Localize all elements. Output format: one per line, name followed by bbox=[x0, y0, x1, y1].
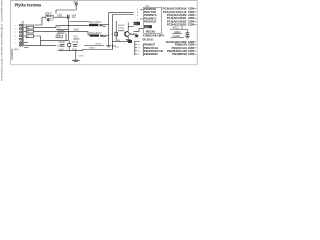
bus vertical at IC lower bbox=[142, 43, 144, 56]
net label row PB4 bbox=[167, 19, 196, 23]
power flag VCC bbox=[73, 1, 78, 5]
IC1 value labels bbox=[143, 30, 165, 41]
wire crystal ground rail bbox=[58, 49, 83, 51]
wire RXD to IC1 bbox=[109, 13, 134, 46]
node AGND label bbox=[171, 35, 185, 38]
wire under IC1 bbox=[134, 41, 140, 43]
svg-text:RES: RES bbox=[144, 27, 149, 29]
wire lower bus left bbox=[134, 42, 136, 55]
capacitor C2 value label bbox=[57, 13, 63, 18]
ground under opto bus bbox=[106, 46, 111, 47]
IC1 left pin wires bbox=[140, 9, 143, 19]
capacitor C8 right bbox=[186, 32, 190, 36]
IC1 ATMEGA8 box bbox=[143, 7, 161, 33]
capacitor C1 bbox=[47, 18, 54, 21]
net labels at R4 top bbox=[118, 25, 125, 30]
net label row ADC6 bbox=[165, 40, 196, 44]
net label row PB0 bbox=[163, 7, 197, 11]
wire connector to regulator input bbox=[24, 17, 42, 25]
capacitor C3 bbox=[70, 14, 90, 22]
wire horizontal 2 bbox=[82, 44, 119, 50]
wire Q1 emitter down bbox=[127, 37, 129, 39]
svg-text:CAN9: CAN9 bbox=[13, 48, 19, 51]
ground right bbox=[185, 37, 190, 39]
wire connector pin 6 bbox=[24, 42, 28, 44]
wire Q1 collector up bbox=[127, 22, 129, 31]
svg-text:CON: CON bbox=[188, 52, 194, 56]
capacitor C2 bbox=[68, 15, 69, 19]
resistor R2 bbox=[24, 30, 34, 34]
wire regulator output rail bbox=[53, 16, 69, 18]
wire base of Q1 bbox=[118, 30, 124, 32]
crystal XT1 labels bbox=[74, 37, 81, 41]
resistor R4 bbox=[111, 21, 118, 40]
svg-text:CON: CON bbox=[188, 23, 194, 27]
svg-text:schemat pochodzi z serwisu www: schemat pochodzi z serwisu www.elektroda… bbox=[0, 0, 4, 81]
net label row lower 2 bbox=[135, 46, 196, 50]
wire R3 down to rail bbox=[34, 36, 41, 45]
wire C2 down bbox=[67, 19, 69, 30]
IC1 reset pin label bbox=[144, 25, 152, 29]
wire TXD to IC1 bbox=[113, 15, 134, 50]
wire relay to collector bbox=[128, 26, 133, 28]
svg-text:100u: 100u bbox=[57, 16, 63, 19]
wire OK1 outputs bbox=[103, 24, 109, 26]
wire horizontal 1 bbox=[84, 44, 104, 46]
optocoupler OK1 bbox=[89, 22, 103, 26]
svg-text:Płytka testowa: Płytka testowa bbox=[15, 3, 42, 8]
wire R1 to OK1 bbox=[34, 26, 89, 28]
wire connector pin 8 stub bbox=[24, 47, 29, 49]
resistor R3 bbox=[24, 35, 34, 39]
transistor Q1 bbox=[124, 31, 137, 37]
net label row PB5 bbox=[167, 23, 196, 27]
net label row PB1 bbox=[163, 10, 196, 14]
svg-text:DIL28-S1: DIL28-S1 bbox=[143, 37, 155, 41]
optocoupler OK2 bbox=[89, 33, 103, 37]
wire +5V top rail bbox=[56, 10, 76, 13]
net label row lower 4 bbox=[135, 52, 196, 56]
wire from row area down bbox=[181, 26, 183, 29]
diode D1 bbox=[129, 34, 138, 37]
wire mid bottom bbox=[112, 40, 133, 47]
net label row lower 3 bbox=[135, 49, 196, 53]
wire regulator input bbox=[42, 16, 46, 18]
sheet frame bbox=[11, 0, 198, 65]
crystal Q2 bbox=[68, 41, 71, 51]
node AREF label bbox=[172, 31, 182, 34]
wire OK2 outputs bbox=[103, 34, 108, 36]
wire GND stem bbox=[75, 50, 77, 60]
svg-text:C7 2p: C7 2p bbox=[72, 42, 79, 44]
capacitor C5 bbox=[56, 33, 66, 40]
net label row PB3 bbox=[167, 16, 196, 20]
connector X1 (CANNON 9) bbox=[11, 22, 25, 60]
wire bottom rail of C cluster bbox=[40, 40, 68, 42]
svg-text:GND: GND bbox=[57, 45, 62, 47]
wire VCC down bbox=[75, 5, 77, 10]
svg-text:SCK: SCK bbox=[115, 46, 120, 48]
voltage regulator IC2 78L05 bbox=[46, 12, 54, 18]
capacitor C7 bbox=[72, 42, 79, 51]
svg-text:TX232: TX232 bbox=[118, 28, 125, 30]
relay K1 bbox=[134, 22, 140, 26]
wire connector pin 9 to GND bbox=[24, 44, 56, 46]
svg-text:ATMEGA8-16PU: ATMEGA8-16PU bbox=[143, 34, 165, 38]
svg-text:PB3(MOSI): PB3(MOSI) bbox=[172, 52, 187, 56]
node AVCC label bbox=[170, 27, 187, 33]
capacitor C4 bbox=[56, 26, 68, 34]
net label row lower 1 bbox=[135, 43, 196, 47]
svg-text:PB3/MOSI: PB3/MOSI bbox=[144, 52, 158, 56]
resistor R1 bbox=[24, 26, 34, 30]
left margin vertical credit text bbox=[0, 0, 4, 81]
svg-text:PD4/XCK: PD4/XCK bbox=[144, 20, 157, 24]
wire R2 to OK2 bbox=[34, 32, 90, 35]
wire C4 bus down bbox=[67, 30, 69, 41]
svg-text:C6 2p: C6 2p bbox=[59, 42, 66, 44]
svg-text:8MHz: 8MHz bbox=[74, 39, 81, 41]
ground main bbox=[72, 60, 79, 61]
capacitor C6 bbox=[59, 42, 66, 51]
IC1 left pin numbers bbox=[137, 9, 139, 24]
svg-text:GND: GND bbox=[79, 55, 84, 57]
IC1 pin name rows bbox=[144, 7, 157, 24]
ground under Q1 bbox=[126, 39, 131, 41]
net label row PB2 bbox=[167, 13, 196, 17]
wire reset stair bbox=[134, 29, 144, 32]
svg-text:GND: GND bbox=[74, 29, 80, 32]
svg-text:RES: RES bbox=[116, 40, 121, 42]
svg-text:10u: 10u bbox=[72, 16, 77, 19]
